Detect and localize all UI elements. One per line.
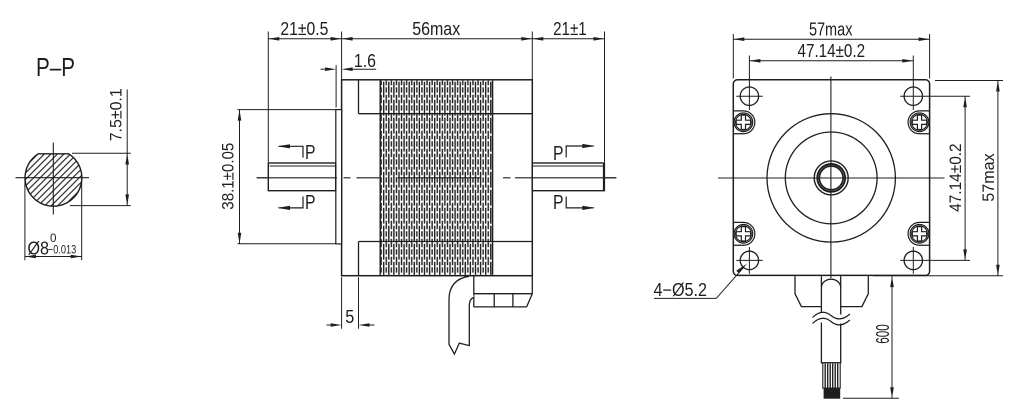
corner screw bottom-right: [908, 222, 930, 245]
svg-text:57max: 57max: [809, 20, 853, 40]
lead wire ribbon: [449, 276, 474, 354]
dimension Ø8 0/-0.013: [25, 179, 82, 260]
wire strands section: [823, 363, 840, 388]
svg-text:P: P: [305, 192, 316, 214]
shaft circles: [814, 161, 848, 195]
section arrows P lower-right: [553, 192, 595, 214]
dimension 7.5±0.1: [70, 90, 131, 206]
mounting hole bottom-right: [900, 247, 970, 274]
corner screw top-left: [733, 111, 755, 134]
horizontal centerline: [257, 177, 617, 179]
section arrows P upper-right: [553, 143, 595, 165]
mounting hole top-right: [900, 56, 970, 111]
dimension 600: [843, 276, 899, 398]
connector block bottom right: [474, 276, 533, 307]
centerlines of section: [16, 143, 90, 215]
svg-text:P–P: P–P: [36, 52, 75, 82]
motor front square: [733, 80, 929, 276]
lamination stack: [380, 81, 492, 275]
section arrows P lower-left: [277, 192, 315, 214]
svg-text:7.5±0.1: 7.5±0.1: [108, 88, 126, 141]
label 4-Ø5.2 with leader: [654, 267, 744, 299]
corner chamfer lines: [359, 114, 533, 242]
svg-text:21±1: 21±1: [553, 19, 587, 39]
dimension 57max right vertical: [873, 81, 1003, 276]
inner boss circle: [785, 132, 877, 224]
dimension 47.14±0.2 right vertical: [964, 96, 966, 260]
dimension 5: [327, 277, 375, 329]
corner screw bottom-left: [733, 222, 755, 245]
centerline across shafts (redrawn over): [257, 177, 337, 179]
svg-text:56max: 56max: [412, 19, 460, 39]
lead wire front view: [821, 276, 840, 363]
svg-text:47.14±0.2: 47.14±0.2: [947, 143, 965, 212]
mounting hole top-left: [736, 56, 763, 111]
front flange step (5mm): [358, 80, 360, 276]
section arrows P upper-left: [277, 142, 315, 164]
right shaft: [532, 163, 604, 191]
svg-text:47.14±0.2: 47.14±0.2: [798, 41, 866, 61]
connector under front view: [795, 276, 868, 307]
corner screw top-right: [908, 111, 930, 134]
dimension 57max top: [733, 34, 929, 79]
dimension 1.6: [321, 65, 377, 107]
svg-text:P: P: [305, 142, 316, 164]
svg-text:5: 5: [345, 307, 354, 327]
pilot boss circle: [767, 114, 895, 242]
shaft cross-section circle with flat, hatched: [25, 154, 82, 206]
svg-text:21±0.5: 21±0.5: [280, 19, 328, 39]
svg-text:1.6: 1.6: [354, 51, 376, 71]
dimension 38.1±0.05: [238, 110, 336, 244]
svg-text:600: 600: [873, 324, 893, 344]
mounting hole bottom-left: [736, 247, 763, 274]
left shaft: [268, 163, 335, 191]
svg-text:P: P: [553, 192, 564, 214]
svg-text:57max: 57max: [980, 153, 998, 202]
svg-text:−0.013: −0.013: [48, 243, 77, 257]
svg-text:38.1±0.05: 38.1±0.05: [220, 143, 238, 210]
pilot boss on front face: [336, 110, 342, 244]
svg-text:Ø8: Ø8: [28, 239, 50, 259]
cable break wavy lines: [813, 312, 850, 325]
motor body outline: [342, 80, 533, 276]
svg-text:4−Ø5.2: 4−Ø5.2: [654, 280, 708, 300]
black wire tip: [824, 388, 841, 399]
dimension 47.14±0.2 top: [749, 60, 913, 62]
centerlines: [718, 77, 945, 279]
dimension row 21±0.5 / 56max / 21±1: [268, 32, 604, 163]
svg-text:P: P: [553, 143, 564, 165]
